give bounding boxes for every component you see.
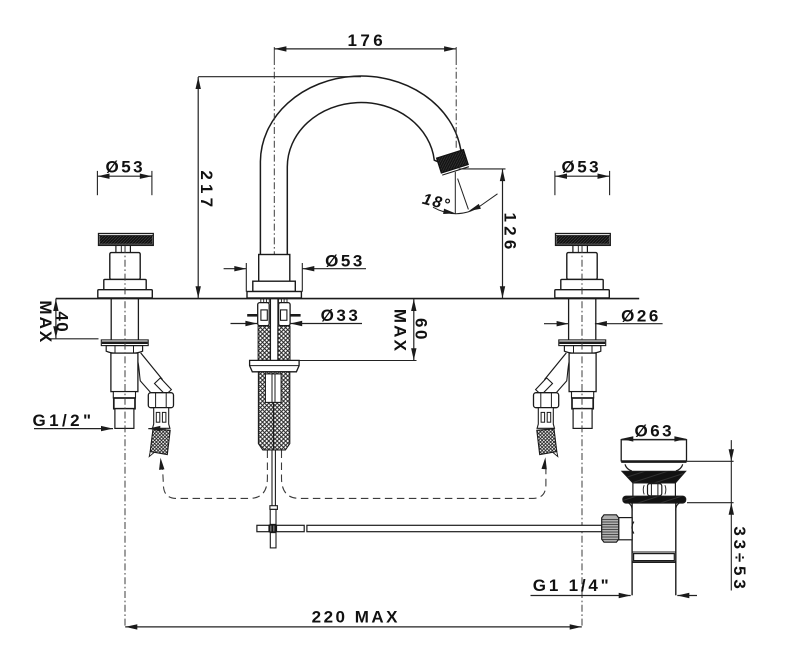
svg-text:Ø53: Ø53 [325,251,365,270]
handle base flange [98,290,153,298]
spout centerline [273,47,275,58]
handle body [110,253,140,280]
rod lower end [270,533,276,548]
svg-text:60: 60 [411,318,430,342]
elbow to hose [139,353,166,394]
dimension 60 MAX [413,299,415,361]
dimension Ø53 left [98,175,152,177]
svg-text:G1/2": G1/2" [33,411,95,430]
svg-text:Ø53: Ø53 [105,157,145,176]
dimension 176 [274,48,456,50]
spout base upper [259,255,290,282]
dimension G1/2 [34,428,113,430]
rod middle [270,509,276,524]
arrowheads [274,46,286,51]
svg-text:176: 176 [348,31,387,50]
side port clamp [619,518,632,540]
spout base flange [247,292,301,299]
rod slot [265,374,281,403]
svg-text:220 MAX: 220 MAX [312,608,400,627]
center tube lines [270,299,272,366]
right handle above deck [555,234,611,299]
threaded end box [114,398,135,409]
elbow collar [155,378,172,395]
threaded shank upper knurl [258,326,270,360]
mounting tab left [258,303,270,326]
svg-text:217: 217 [197,170,216,211]
spout base step [253,281,295,291]
drain washer band (hatched) [623,496,686,503]
svg-text:G1 1/4": G1 1/4" [533,576,612,595]
center barrel [648,484,662,496]
drain neck flare left [625,464,632,471]
handle knurled cap [99,234,154,246]
washer [101,340,148,346]
mounting flange nut [250,360,300,371]
svg-text:MAX: MAX [391,309,410,353]
nozzle face line [442,167,469,175]
dimension Ø53 right [555,175,610,177]
spout inner curve [287,103,440,255]
shank tube [110,299,112,340]
mounting tab right [279,303,291,326]
nozzle knurled block [437,150,469,173]
pop-up lever bar [257,525,304,531]
dimension 217 line [197,77,199,298]
hose flow arrow right [541,457,548,469]
svg-text:126: 126 [501,213,520,254]
spout outer curve [260,76,463,254]
rod hidden line [273,402,275,450]
svg-text:Ø63: Ø63 [634,421,674,440]
left handle centerline [124,246,126,627]
drain mid band [632,483,634,496]
drain neck flare right [676,464,683,471]
rod clamp ball [268,524,277,532]
dashed guide right of rod [282,451,546,499]
deck line [56,298,639,300]
svg-text:Ø53: Ø53 [561,157,601,176]
handle base step [104,279,146,289]
drain cone (hatched) [622,471,686,483]
dimension Ø53 center [224,268,247,270]
ring under body [113,392,135,398]
dashed hose routing [163,451,546,499]
dimension Ø26 [544,323,569,325]
hose fitting [153,408,170,429]
dimension G1 1/4 [531,595,631,597]
valve body [111,353,138,392]
svg-text:Ø33: Ø33 [321,306,361,325]
right handle centerline [581,246,583,627]
dimension 40 MAX [55,299,57,339]
lower knurled shank [258,372,289,450]
dimension 220 MAX [125,626,582,628]
hex coupling nut [148,393,173,408]
hose flow arrow left [158,457,165,469]
stud pins [247,314,257,317]
rod collar [270,506,278,510]
dashed guide left of rod [163,451,268,499]
handle stem [115,245,117,252]
dimension Ø63 [621,439,686,441]
body joint ring [632,551,676,553]
svg-text:MAX: MAX [36,300,55,344]
right below-deck valve (mirrored) [534,299,606,457]
angle 18 reference lines [454,172,456,214]
drain top cap [621,440,686,461]
dimension 33÷53 [730,440,732,590]
nut [106,346,142,354]
nozzle tip centerline [455,47,457,58]
supply tube end [115,409,134,429]
drain body [631,503,633,595]
dimension 126 line [502,169,504,298]
rod upper [271,450,273,506]
pop-up rod [270,450,278,524]
dimension Ø33 [231,323,258,325]
knurled adjuster knob [602,515,619,542]
svg-text:Ø26: Ø26 [621,306,661,325]
svg-text:33÷53: 33÷53 [730,526,749,592]
braided hose [150,429,170,455]
